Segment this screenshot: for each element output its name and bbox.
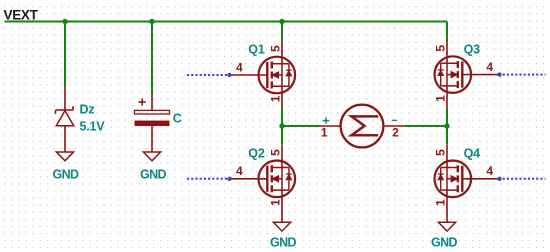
svg-text:Q4: Q4 xyxy=(464,147,481,161)
svg-text:2: 2 xyxy=(392,125,399,139)
svg-text:4: 4 xyxy=(486,164,493,178)
svg-text:C: C xyxy=(173,111,182,125)
svg-text:4: 4 xyxy=(236,164,243,178)
svg-text:Dz: Dz xyxy=(80,103,95,117)
svg-text:GND: GND xyxy=(53,168,80,182)
svg-text:VEXT: VEXT xyxy=(4,8,39,23)
svg-text:1: 1 xyxy=(433,95,447,102)
svg-text:GND: GND xyxy=(431,236,458,250)
svg-text:5: 5 xyxy=(268,149,282,156)
svg-text:1: 1 xyxy=(268,95,282,102)
svg-text:1: 1 xyxy=(268,199,282,206)
svg-text:5.1V: 5.1V xyxy=(80,120,106,134)
svg-text:Q2: Q2 xyxy=(248,147,265,161)
svg-text:5: 5 xyxy=(268,45,282,52)
svg-text:Q1: Q1 xyxy=(248,43,265,57)
svg-text:1: 1 xyxy=(321,125,328,139)
svg-text:Q3: Q3 xyxy=(464,42,481,56)
svg-text:4: 4 xyxy=(486,60,493,74)
svg-text:4: 4 xyxy=(236,60,243,74)
svg-text:GND: GND xyxy=(140,168,167,182)
svg-text:5: 5 xyxy=(433,149,447,156)
svg-text:5: 5 xyxy=(433,45,447,52)
svg-text:GND: GND xyxy=(270,236,297,250)
svg-text:1: 1 xyxy=(433,199,447,206)
